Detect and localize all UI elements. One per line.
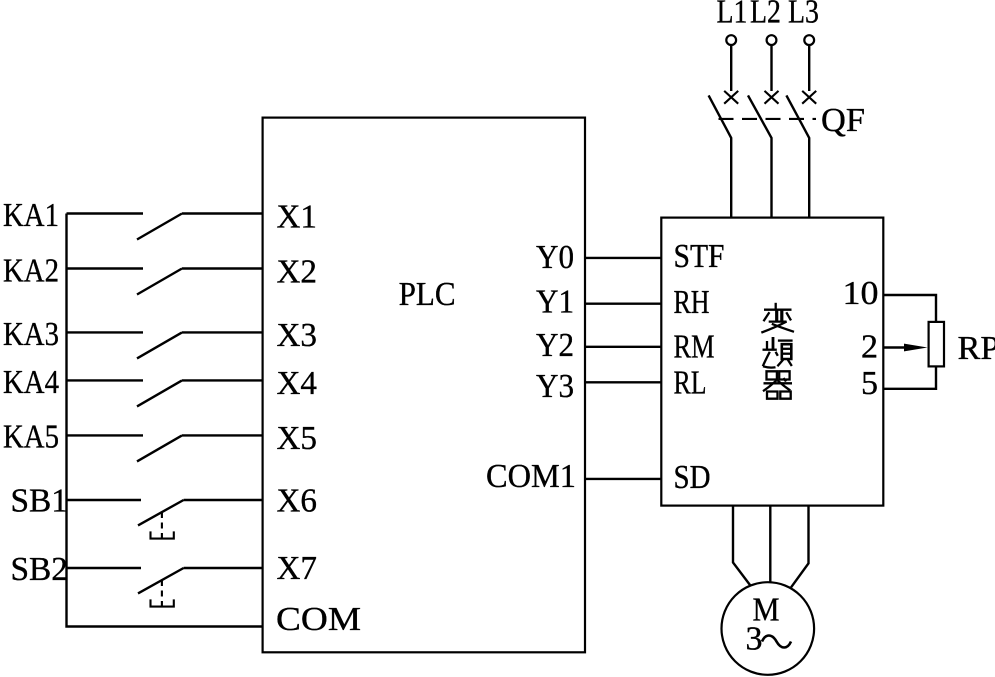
svg-text:SB2: SB2 <box>11 551 69 588</box>
svg-text:3: 3 <box>746 621 763 658</box>
svg-text:L2: L2 <box>750 0 781 30</box>
svg-text:KA5: KA5 <box>3 419 59 456</box>
svg-text:KA3: KA3 <box>3 316 59 353</box>
svg-text:L1: L1 <box>717 0 748 30</box>
svg-text:Y0: Y0 <box>536 239 574 276</box>
svg-text:RM: RM <box>674 328 715 365</box>
svg-text:QF: QF <box>821 102 865 139</box>
svg-text:KA2: KA2 <box>3 253 59 290</box>
svg-text:PLC: PLC <box>399 276 456 313</box>
svg-text:KA4: KA4 <box>3 364 59 401</box>
svg-text:SB1: SB1 <box>11 483 69 520</box>
svg-text:KA1: KA1 <box>3 197 59 234</box>
svg-text:X2: X2 <box>277 254 318 291</box>
svg-text:X4: X4 <box>277 365 318 402</box>
svg-text:5: 5 <box>861 365 878 402</box>
svg-text:10: 10 <box>843 275 879 312</box>
svg-text:L3: L3 <box>788 0 819 30</box>
svg-text:X7: X7 <box>277 550 318 587</box>
svg-text:COM1: COM1 <box>486 458 576 495</box>
svg-text:Y2: Y2 <box>536 327 574 364</box>
svg-text:X6: X6 <box>277 483 318 520</box>
svg-text:Y1: Y1 <box>536 284 574 321</box>
svg-text:RL: RL <box>674 365 707 402</box>
svg-text:Y3: Y3 <box>536 368 574 405</box>
svg-text:COM: COM <box>276 601 361 638</box>
svg-text:RP: RP <box>958 330 995 367</box>
svg-text:RH: RH <box>674 284 710 321</box>
svg-text:SD: SD <box>674 459 711 496</box>
svg-text:X3: X3 <box>277 317 318 354</box>
svg-text:STF: STF <box>674 238 725 275</box>
svg-text:X5: X5 <box>277 420 318 457</box>
svg-text:2: 2 <box>861 329 878 366</box>
svg-text:X1: X1 <box>277 199 318 236</box>
